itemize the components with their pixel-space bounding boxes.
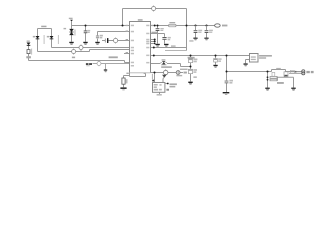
- ground out left: [265, 88, 269, 91]
- ground C8: [213, 65, 217, 68]
- wire output top: [227, 70, 302, 72]
- wire C1 branch: [85, 26, 87, 42]
- wire input link top: [38, 28, 52, 30]
- net blob top: [151, 6, 157, 12]
- capacitor C8: [214, 58, 222, 62]
- capacitor C7: [188, 59, 197, 63]
- label above FB row: [161, 66, 172, 68]
- wire snubber mid: [278, 76, 294, 87]
- IC U1 body: [130, 22, 151, 73]
- wire TVS branch: [71, 26, 73, 42]
- snubber join wire: [277, 77, 279, 81]
- junction dot C7: [190, 66, 192, 68]
- IC U3 box: [153, 83, 165, 93]
- resistor R1: [27, 49, 32, 55]
- capacitor C9 plates: [225, 80, 233, 84]
- wire top loop left drop: [122, 9, 124, 26]
- U3 bottom dash: [157, 94, 162, 95]
- module text: [259, 55, 272, 59]
- snubber R row1: [270, 77, 277, 79]
- snubber R row2: [270, 79, 277, 81]
- wire VCC rail left: [72, 25, 130, 27]
- sense cap: [104, 69, 107, 72]
- label net sense: [72, 57, 75, 59]
- label on pin33 wire: [151, 32, 157, 34]
- U1 pin numbers left: [126, 25, 154, 74]
- ground C7b: [188, 82, 192, 85]
- wire FB net: [102, 40, 130, 42]
- wire sense line: [93, 64, 130, 70]
- opto label column: [152, 74, 153, 79]
- ground module: [244, 63, 248, 66]
- ground C9: [223, 92, 230, 95]
- capacitor C3: [204, 26, 213, 41]
- comp hang A: [272, 72, 275, 76]
- ground out right: [291, 88, 295, 91]
- wire D1 branch: [38, 29, 130, 52]
- wire snubber drop: [267, 72, 269, 88]
- junction dots VDD wire: [190, 55, 228, 57]
- power flag VCC: [69, 18, 73, 22]
- ground BP: [95, 42, 99, 45]
- ground C5: [164, 44, 168, 47]
- wire VDD long: [151, 55, 250, 57]
- BP cap plates: [96, 35, 103, 39]
- wire pin stub left: [124, 53, 130, 55]
- diode D4: [161, 59, 168, 65]
- net blob L2: [71, 49, 77, 55]
- U3 inner text: [154, 84, 162, 91]
- sense label dark: [86, 63, 92, 66]
- series comp out lower: [284, 72, 288, 77]
- label U1: [138, 19, 143, 21]
- wire D3 branch: [29, 45, 130, 62]
- wire pin stubs right: [151, 40, 155, 44]
- ground R6: [120, 87, 126, 90]
- label net drive: [109, 56, 118, 58]
- diode D1: [33, 35, 45, 44]
- U3 right pin dot: [167, 83, 169, 85]
- link label: [41, 26, 46, 28]
- wire drain pins: [165, 50, 187, 52]
- snubber dots: [267, 76, 269, 80]
- wire top loop right drop: [186, 9, 188, 51]
- wire U3 right pin: [166, 83, 169, 85]
- opto pin blob: [152, 80, 154, 82]
- wire C7 chain: [190, 56, 192, 82]
- transistor triangle: [162, 75, 166, 78]
- diode D3: [27, 41, 31, 46]
- sense crossed circle: [96, 61, 101, 66]
- FB row crossed circle: [163, 69, 169, 75]
- ground C1: [83, 42, 87, 45]
- junction dot U1 drop: [154, 72, 156, 74]
- wire tr drop: [163, 75, 166, 82]
- capacitor C4 plates: [156, 28, 164, 31]
- label above drain wire: [171, 45, 176, 46]
- capacitor C2: [193, 26, 202, 41]
- wire opto drop: [154, 73, 156, 83]
- connector pin 1: [302, 70, 314, 73]
- U3 right text: [170, 83, 177, 87]
- pin junction dots right: [153, 39, 156, 57]
- wire C9 chain: [226, 56, 228, 93]
- junction dot out: [226, 71, 228, 73]
- U3 bottom right mark: [166, 89, 169, 91]
- label snubber: [277, 82, 284, 84]
- wire U3 bottom stub: [159, 93, 161, 95]
- U1 pin names left: [131, 25, 134, 67]
- wire U1 bottom U: [130, 73, 146, 77]
- wire rect diode net: [151, 64, 191, 67]
- FB crossed circle: [113, 38, 119, 44]
- label above out: [276, 68, 281, 69]
- label right FB row: [180, 69, 188, 70]
- wire module gnd: [246, 60, 250, 64]
- out junction dot: [267, 71, 269, 73]
- wire rail right: [151, 25, 215, 27]
- wire output lower: [289, 72, 302, 74]
- wire top loop horizontal: [123, 8, 187, 10]
- wire C8 chain: [215, 56, 217, 65]
- label under FB row: [176, 75, 182, 76]
- module J2 box: [250, 54, 259, 63]
- connector pin 2: [302, 72, 305, 75]
- capacitor C5 plates: [162, 37, 170, 40]
- wire FB row: [151, 72, 184, 74]
- wire flag stem: [71, 22, 73, 26]
- wire pin 33: [151, 34, 165, 44]
- capacitor C1 plates: [84, 30, 91, 33]
- net blob L1: [78, 45, 84, 52]
- wire D2 branch: [52, 29, 130, 48]
- TVS diode bowtie: [64, 28, 76, 36]
- ground C4: [155, 44, 159, 47]
- wire C4 branch: [157, 26, 159, 44]
- FB row end text: [184, 72, 187, 74]
- capacitor C7b: [188, 69, 197, 74]
- fuse F1 on rail: [169, 22, 177, 27]
- node label AC: [26, 56, 31, 58]
- terminal oval: [215, 24, 228, 27]
- label right of loop drop: [189, 40, 193, 42]
- wire pin BP: [98, 32, 130, 42]
- comp out series C: [290, 70, 296, 73]
- label under VDD wire: [188, 57, 195, 59]
- wire R6 branch: [124, 76, 130, 88]
- diode D2: [47, 35, 59, 44]
- resistor R6: [122, 78, 128, 84]
- ground TVS: [69, 42, 73, 45]
- FB cap plates: [105, 38, 109, 43]
- U1 pin names right: [146, 25, 149, 64]
- label C7b: [193, 76, 196, 78]
- FB row circle pin: [176, 71, 180, 75]
- junction dots rail: [85, 25, 208, 27]
